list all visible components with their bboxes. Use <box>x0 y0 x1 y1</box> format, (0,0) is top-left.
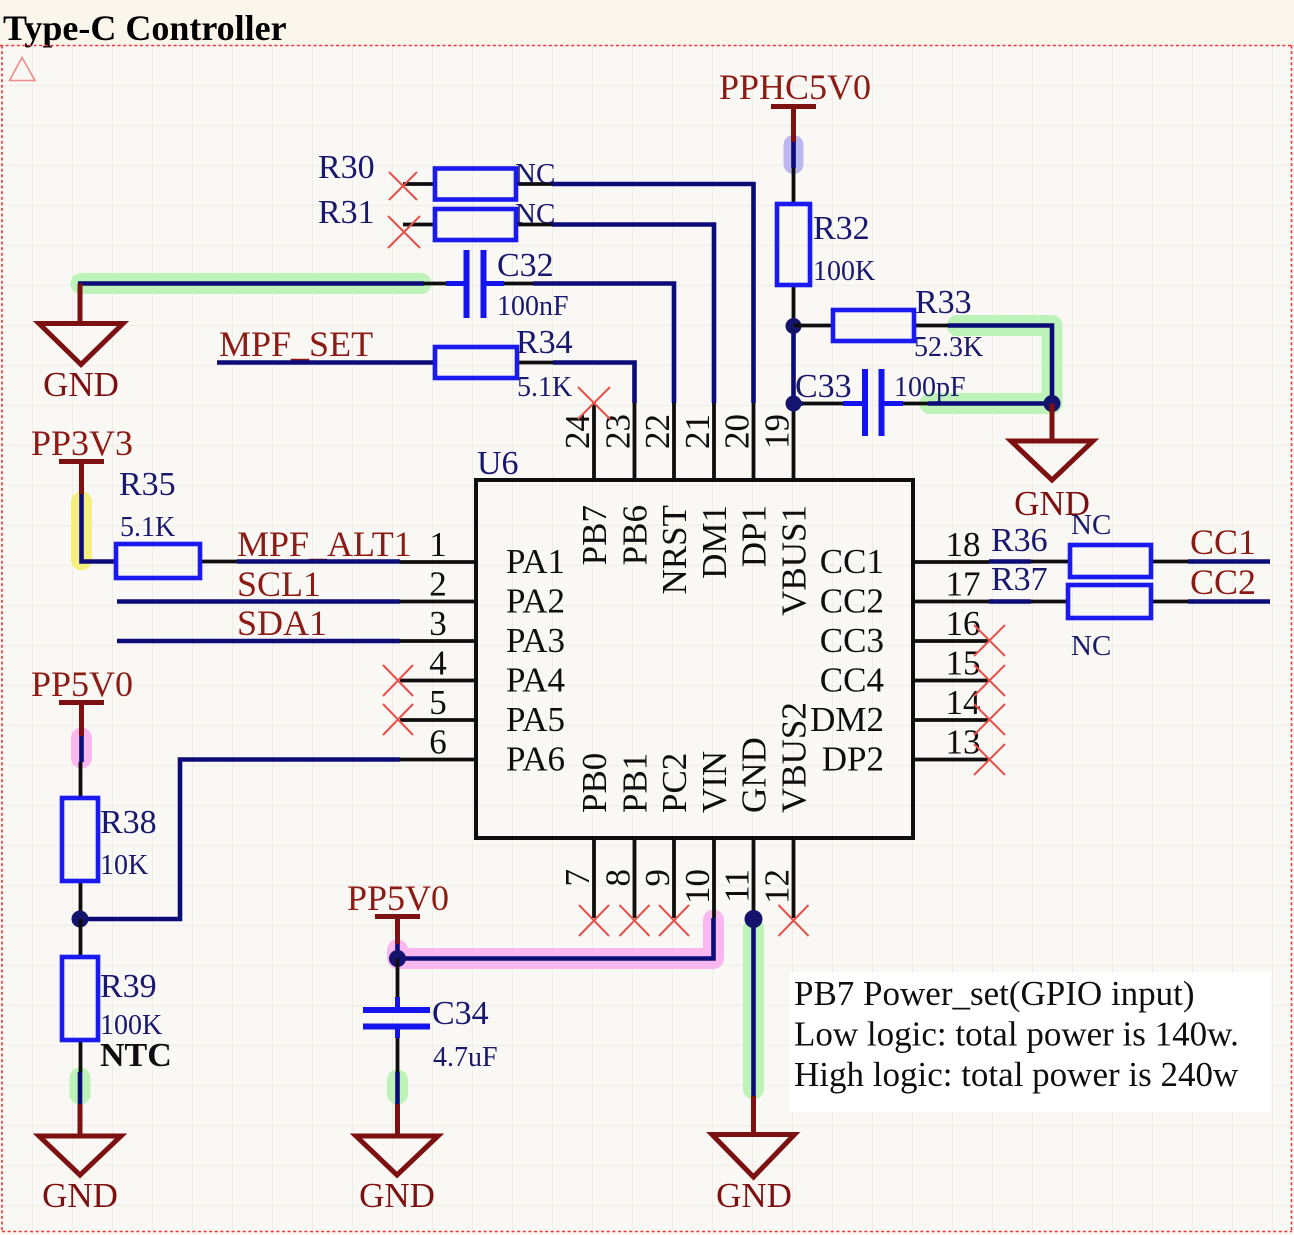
capacitor C34 <box>363 959 498 1074</box>
wire C34 to GND <box>395 1072 400 1104</box>
wire PP5V0 to R38 <box>79 736 84 762</box>
svg-text:High logic: total power is 240: High logic: total power is 240w <box>794 1055 1239 1094</box>
pin 18 <box>913 525 989 564</box>
svg-text:VBUS2: VBUS2 <box>775 702 814 813</box>
ground GND below pin11 <box>712 1096 795 1215</box>
ground GND top-left <box>39 284 123 405</box>
wire pin6 to R38/R39 node <box>80 760 400 920</box>
svg-text:PPHC5V0: PPHC5V0 <box>719 67 871 107</box>
pin17 wire stub <box>989 599 1031 604</box>
pin 12 <box>758 838 797 918</box>
svg-text:NRST: NRST <box>655 505 694 594</box>
svg-text:PC2: PC2 <box>655 753 694 813</box>
svg-text:VIN: VIN <box>695 751 734 813</box>
svg-text:CC1: CC1 <box>820 542 884 581</box>
ground GND below R39 <box>39 1104 121 1215</box>
net highlight green GND wire top-left <box>81 273 421 294</box>
svg-text:22: 22 <box>638 414 677 449</box>
resistor R30 <box>318 149 552 200</box>
svg-text:5.1K: 5.1K <box>120 512 175 543</box>
svg-text:11: 11 <box>718 869 757 903</box>
net highlight yellow PP3V3 stem <box>71 502 92 560</box>
svg-text:PB1: PB1 <box>616 753 655 813</box>
wire net NC R30 to pin20 <box>552 184 754 403</box>
wire PPHC5V0 to R32 <box>791 142 796 168</box>
pin 23 <box>599 403 638 480</box>
wire R32 to pin19 junctions <box>791 326 796 403</box>
power net PP5V0 left <box>31 664 133 736</box>
wire C33 to GND node <box>928 401 1052 406</box>
no-connect X on R31 pin <box>388 216 420 248</box>
pin 11 <box>718 838 757 918</box>
svg-text:1: 1 <box>429 525 447 564</box>
power net PPHC5V0 <box>719 67 871 142</box>
svg-text:GND: GND <box>359 1176 435 1215</box>
svg-text:R30: R30 <box>318 149 375 186</box>
svg-text:100pF: 100pF <box>894 372 966 403</box>
pin 19 <box>758 403 797 480</box>
svg-text:14: 14 <box>946 683 981 722</box>
pin 10 <box>678 838 717 918</box>
pin 24 <box>558 403 597 480</box>
capacitor C33 <box>795 368 966 436</box>
IC U6 body <box>476 480 913 838</box>
wire SCL1 to pin2 <box>117 599 400 604</box>
svg-text:GND: GND <box>735 737 774 813</box>
svg-text:6: 6 <box>429 723 447 762</box>
svg-text:100K: 100K <box>813 256 875 287</box>
svg-text:SDA1: SDA1 <box>237 603 327 643</box>
no-connect X on pin8 <box>620 905 650 936</box>
svg-text:5.1K: 5.1K <box>517 372 572 403</box>
svg-text:CC4: CC4 <box>820 661 884 700</box>
svg-text:R36: R36 <box>991 522 1048 559</box>
svg-text:10: 10 <box>678 869 717 904</box>
svg-text:4.7uF: 4.7uF <box>433 1042 498 1073</box>
svg-text:Type-C Controller: Type-C Controller <box>3 8 287 48</box>
pin 16 <box>913 604 989 643</box>
svg-text:U6: U6 <box>477 445 519 482</box>
no-connect X on pin13 <box>974 744 1005 775</box>
wire GND net to C32 <box>78 281 424 286</box>
resistor R32 <box>777 168 875 326</box>
svg-text:7: 7 <box>558 869 597 887</box>
svg-text:C33: C33 <box>795 368 852 405</box>
svg-text:19: 19 <box>758 414 797 449</box>
pin 21 <box>678 403 717 480</box>
no-connect X on pin4 <box>383 665 413 696</box>
svg-text:PB6: PB6 <box>616 505 655 565</box>
net highlight green R39 GND stem <box>70 1078 91 1094</box>
no-connect X on pin7 <box>579 905 609 936</box>
pin 6 <box>400 723 476 762</box>
svg-text:Low logic: total power is 140w: Low logic: total power is 140w. <box>794 1015 1239 1054</box>
power net PP3V3 <box>31 423 133 494</box>
svg-text:17: 17 <box>946 565 981 604</box>
svg-text:GND: GND <box>716 1176 792 1215</box>
svg-text:DM1: DM1 <box>695 505 734 579</box>
pin 13 <box>913 723 989 762</box>
resistor R37 <box>991 561 1188 618</box>
svg-text:23: 23 <box>599 414 638 449</box>
svg-text:NTC: NTC <box>100 1037 172 1074</box>
svg-text:R35: R35 <box>119 466 176 503</box>
pin 8 <box>599 838 638 918</box>
node junction C33/R33/GND <box>1044 395 1061 412</box>
svg-text:GND: GND <box>42 1176 118 1215</box>
pin 22 <box>638 403 677 480</box>
node junction R32/R33 <box>786 318 802 334</box>
net highlight lavender PPHC5V0 stem <box>784 145 804 164</box>
pin 17 <box>913 565 989 604</box>
no-connect X on R30 pin <box>389 172 417 200</box>
svg-text:4: 4 <box>429 644 447 683</box>
svg-text:16: 16 <box>946 604 981 643</box>
no-connect X on pin12 <box>779 905 809 936</box>
wire MPF_SET to R34 <box>217 360 435 365</box>
svg-text:CC2: CC2 <box>820 582 884 621</box>
svg-text:CC2: CC2 <box>1190 562 1256 602</box>
svg-text:PP5V0: PP5V0 <box>31 664 133 704</box>
svg-text:R32: R32 <box>813 210 870 247</box>
net highlight green R33 to GND <box>930 326 1052 404</box>
net highlight green pin11 to GND <box>743 928 764 1089</box>
svg-text:52.3K: 52.3K <box>914 332 983 363</box>
capacitor C32 <box>424 247 569 322</box>
svg-text:R33: R33 <box>915 284 972 321</box>
svg-text:PB0: PB0 <box>575 753 614 813</box>
wire net NC R31 to pin21 <box>552 225 714 404</box>
svg-text:PP3V3: PP3V3 <box>31 423 133 463</box>
resistor R39 <box>62 919 172 1074</box>
ground GND right of C33 <box>1011 404 1093 524</box>
net highlight pink PP5V0 to pin10 <box>398 920 714 959</box>
svg-text:R38: R38 <box>100 804 157 841</box>
svg-text:DM2: DM2 <box>810 700 884 739</box>
svg-text:CC1: CC1 <box>1190 522 1256 562</box>
resistor R31 <box>318 194 552 240</box>
svg-text:5: 5 <box>429 683 447 722</box>
svg-text:24: 24 <box>558 414 597 449</box>
svg-text:NC: NC <box>1071 509 1111 541</box>
wire net CC2 <box>1188 599 1270 604</box>
svg-text:PA1: PA1 <box>506 542 565 581</box>
wire net CC1 <box>1188 559 1270 564</box>
ground GND below C34 <box>356 1104 438 1215</box>
svg-text:15: 15 <box>946 644 981 683</box>
svg-text:20: 20 <box>718 414 757 449</box>
svg-text:3: 3 <box>429 604 447 643</box>
wire R39 to GND <box>78 1072 83 1104</box>
no-connect X on pin5 <box>383 704 413 735</box>
svg-text:13: 13 <box>946 723 981 762</box>
node junction pin19/C33 <box>786 396 802 412</box>
svg-text:MPF_ALT1: MPF_ALT1 <box>237 524 412 564</box>
pin 5 <box>400 683 476 722</box>
svg-text:PA5: PA5 <box>506 700 565 739</box>
svg-text:PA4: PA4 <box>506 661 565 700</box>
no-connect X on pin15 <box>974 665 1005 696</box>
pin 1 <box>400 525 476 564</box>
resistor R33 <box>794 284 984 363</box>
resistor R35 <box>116 466 237 578</box>
svg-text:PB7: PB7 <box>575 505 614 565</box>
svg-text:100nF: 100nF <box>497 291 569 322</box>
svg-text:R39: R39 <box>100 968 157 1005</box>
svg-text:DP2: DP2 <box>822 740 884 779</box>
svg-text:C32: C32 <box>497 247 554 284</box>
pin 20 <box>718 403 757 480</box>
node junction PP5V0/C34 <box>389 950 406 967</box>
net highlight green C34 GND stem <box>387 1080 408 1094</box>
svg-text:18: 18 <box>946 525 981 564</box>
pin18 wire stub <box>989 559 1031 564</box>
svg-text:DP1: DP1 <box>735 505 774 567</box>
note box <box>790 972 1271 1112</box>
net highlight pink PP5V0 stem <box>71 738 92 758</box>
wire pin11 to GND <box>751 919 756 1098</box>
svg-text:PA3: PA3 <box>506 621 565 660</box>
node junction pin11 <box>745 910 763 928</box>
pin 2 <box>400 565 476 604</box>
pin 15 <box>913 644 989 683</box>
wire R33 to GND corner <box>948 326 1052 404</box>
wire PP5V0 node to pin10 <box>398 918 714 959</box>
wire R34 to pin23 <box>553 363 635 404</box>
wire pin19 node to C33 <box>794 401 804 406</box>
svg-text:R37: R37 <box>991 561 1048 598</box>
wire MPF_ALT1 R35 to pin1 <box>237 559 400 564</box>
svg-text:SCL1: SCL1 <box>237 564 321 604</box>
svg-text:PB7 Power_set(GPIO input): PB7 Power_set(GPIO input) <box>794 974 1195 1013</box>
resistor R36 <box>991 522 1188 577</box>
pin 3 <box>400 604 476 643</box>
svg-text:PP5V0: PP5V0 <box>347 878 449 918</box>
svg-text:MPF_SET: MPF_SET <box>219 324 373 364</box>
svg-text:9: 9 <box>638 869 677 887</box>
wire PP3V3 to R35 <box>82 494 117 562</box>
pin 4 <box>400 644 476 683</box>
wire C32 to pin22 <box>533 284 674 404</box>
svg-text:R34: R34 <box>516 324 573 361</box>
svg-text:10K: 10K <box>100 850 148 881</box>
svg-text:8: 8 <box>599 869 638 887</box>
pin 7 <box>558 838 597 918</box>
svg-text:NC: NC <box>515 198 555 230</box>
no-connect X on pin9 <box>659 905 689 936</box>
node junction R38/R39/pin6 <box>72 911 89 928</box>
wire SDA1 to pin3 <box>117 639 400 644</box>
svg-text:PA6: PA6 <box>506 740 565 779</box>
svg-text:VBUS1: VBUS1 <box>775 505 814 616</box>
svg-text:CC3: CC3 <box>820 621 884 660</box>
svg-text:C34: C34 <box>432 995 489 1032</box>
svg-text:GND: GND <box>43 365 119 404</box>
svg-text:21: 21 <box>678 414 717 449</box>
svg-text:NC: NC <box>1071 630 1111 662</box>
no-connect X on pin24 <box>578 387 610 419</box>
pin 14 <box>913 683 989 722</box>
svg-text:NC: NC <box>515 158 555 190</box>
resistor R34 <box>435 324 573 403</box>
no-connect X on pin16 <box>974 625 1005 656</box>
resistor R38 <box>62 762 157 919</box>
power net PP5V0 center <box>347 878 449 944</box>
svg-text:2: 2 <box>429 565 447 604</box>
svg-text:12: 12 <box>758 869 797 904</box>
svg-text:PA2: PA2 <box>506 582 565 621</box>
no-connect X on pin14 <box>974 704 1005 735</box>
pin 9 <box>638 838 677 918</box>
svg-text:R31: R31 <box>318 194 375 231</box>
